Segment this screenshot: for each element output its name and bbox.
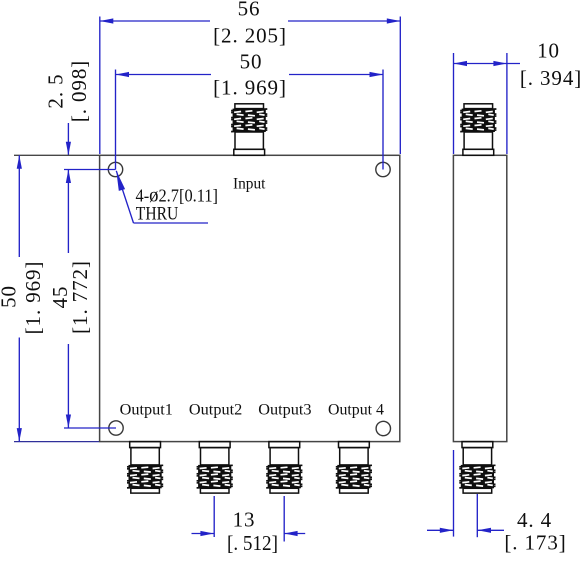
- side view bottom connector: [459, 442, 495, 494]
- svg-text:13: 13: [233, 508, 256, 532]
- svg-text:Output3: Output3: [258, 401, 311, 418]
- output connector 1: [127, 442, 163, 494]
- output connector 3: [266, 442, 302, 494]
- corner hole top-left: [108, 162, 122, 176]
- dim 45 left: dimension line: [67, 170, 69, 254]
- svg-text:[. 173]: [. 173]: [504, 531, 566, 555]
- corner hole bottom-left: [109, 421, 123, 435]
- svg-text:Output2: Output2: [189, 401, 242, 418]
- svg-text:50: 50: [240, 50, 263, 74]
- dim 45 left: extension lines: [64, 169, 116, 171]
- svg-text:Input: Input: [233, 175, 266, 192]
- svg-text:56: 56: [238, 0, 261, 21]
- input connector (front top): [231, 104, 267, 156]
- svg-text:[1. 969]: [1. 969]: [21, 261, 45, 335]
- svg-text:Output 4: Output 4: [328, 401, 384, 418]
- svg-text:[. 098]: [. 098]: [67, 60, 91, 122]
- side view top connector: [460, 104, 496, 156]
- dim 56 top: dimension line: [100, 20, 210, 22]
- dim 50 left: extension lines: [14, 154, 99, 156]
- svg-text:[. 512]: [. 512]: [227, 531, 278, 555]
- leader 4-dia2.7 THRU: arrow + polyline: [116, 171, 133, 223]
- svg-text:Output1: Output1: [120, 401, 173, 418]
- dim 4.4 bottom: dimension line + outside arrows: [427, 529, 453, 531]
- dim 13 bottom: extension lines: [213, 496, 215, 537]
- dim 2.5 left: dimension line + arrows: [67, 123, 69, 155]
- corner hole bottom-right: [376, 421, 390, 435]
- svg-text:50: 50: [0, 285, 21, 308]
- svg-text:4. 4: 4. 4: [517, 508, 552, 532]
- dim 56 top: extension lines: [99, 17, 101, 155]
- svg-text:[1. 772]: [1. 772]: [68, 260, 92, 334]
- corner hole top-right: [376, 162, 390, 176]
- dim 10 side: dimension line: [454, 63, 521, 65]
- dim 4.4 bottom: extension lines: [453, 450, 455, 537]
- svg-text:THRU: THRU: [136, 204, 179, 225]
- svg-text:[. 394]: [. 394]: [520, 66, 582, 90]
- output connector 4: [336, 442, 372, 494]
- output connector 2: [197, 442, 233, 494]
- dim 10 side: extension lines: [453, 53, 455, 154]
- svg-text:10: 10: [537, 39, 560, 63]
- dim 50 left: dimension line: [18, 155, 20, 257]
- svg-text:[2. 205]: [2. 205]: [213, 24, 287, 48]
- side view body: [453, 155, 506, 441]
- front view body: [100, 155, 400, 441]
- svg-text:2. 5: 2. 5: [44, 73, 68, 108]
- dim 13 bottom: dimension line + outside arrows: [192, 533, 214, 535]
- dim 50 top: extension lines: [115, 70, 117, 170]
- svg-text:[1. 969]: [1. 969]: [213, 76, 287, 100]
- dim 50 top: dimension line: [116, 74, 212, 76]
